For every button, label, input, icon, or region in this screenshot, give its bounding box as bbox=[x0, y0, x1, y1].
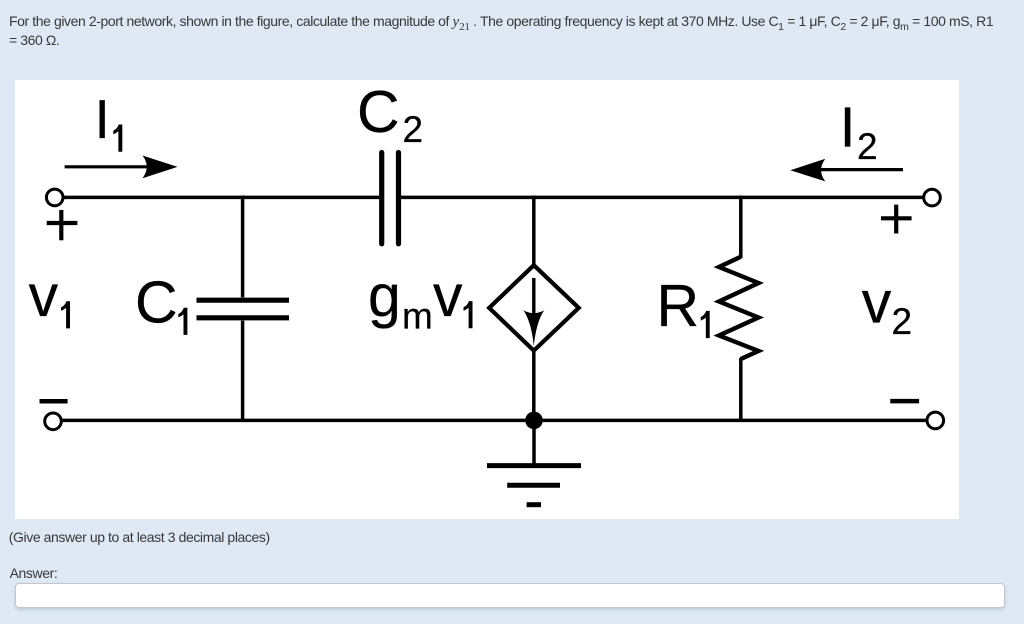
wire top (left segment to C2) bbox=[63, 196, 379, 200]
svg-text:I: I bbox=[840, 96, 856, 159]
wire top (C2 to right terminal) bbox=[401, 196, 924, 200]
svg-text:v: v bbox=[433, 263, 463, 329]
terminal bottom-right bbox=[927, 412, 944, 429]
junction node dot bbox=[525, 412, 543, 430]
capacitor C2 plates bbox=[382, 153, 399, 244]
capacitor C1 plates bbox=[197, 300, 290, 318]
terminal bottom-left bbox=[45, 413, 62, 430]
current arrow I1 bbox=[65, 165, 148, 168]
plus sign left bbox=[47, 210, 78, 240]
wire R1 branch upper bbox=[739, 196, 743, 258]
svg-text:R: R bbox=[657, 273, 700, 339]
svg-text:g: g bbox=[368, 263, 401, 329]
figure panel bbox=[15, 80, 959, 519]
svg-text:C: C bbox=[357, 79, 400, 145]
svg-text:v: v bbox=[862, 269, 892, 335]
current arrow I2 bbox=[820, 168, 903, 171]
terminal top-left bbox=[46, 189, 63, 206]
ground bbox=[487, 420, 581, 504]
terminal top-right bbox=[924, 189, 941, 206]
source arrow bbox=[532, 278, 535, 324]
plus sign right bbox=[881, 205, 912, 234]
resistor R1 zigzag bbox=[719, 257, 759, 359]
wire gm branch upper bbox=[532, 196, 536, 266]
dependent source gmV1 diamond bbox=[489, 265, 579, 350]
svg-text:2: 2 bbox=[857, 126, 878, 167]
svg-text:C: C bbox=[135, 269, 178, 335]
wire gm branch lower bbox=[532, 351, 536, 421]
svg-text:m: m bbox=[402, 295, 433, 336]
svg-text:2: 2 bbox=[892, 301, 913, 342]
wire bottom bbox=[63, 419, 928, 423]
wire C1 branch upper bbox=[241, 196, 245, 298]
minus sign left bbox=[40, 399, 68, 404]
wire R1 branch lower bbox=[739, 358, 743, 420]
svg-text:2: 2 bbox=[403, 109, 424, 150]
svg-text:I: I bbox=[95, 88, 110, 150]
minus sign right bbox=[890, 399, 919, 404]
svg-text:v: v bbox=[29, 263, 59, 329]
wire C1 branch lower bbox=[241, 321, 245, 421]
